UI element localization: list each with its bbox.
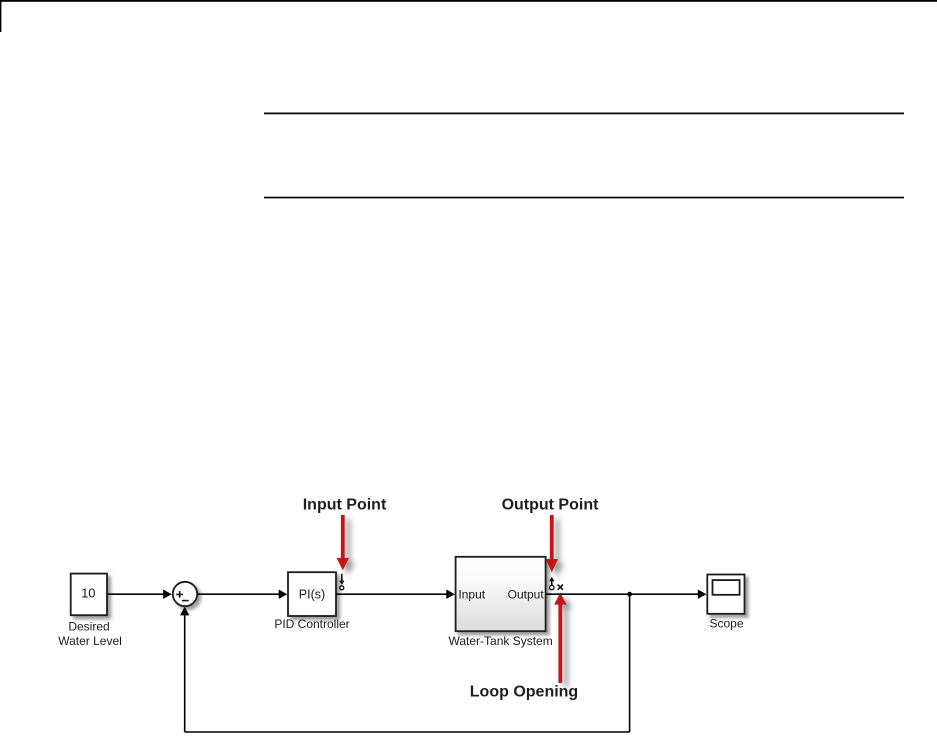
svg-text:PI(s): PI(s) <box>299 587 325 601</box>
svg-text:Loop Opening: Loop Opening <box>470 683 578 700</box>
block Water-Tank System <box>456 557 546 631</box>
block Scope <box>707 575 744 614</box>
red arrow Loop Opening <box>554 593 566 683</box>
sum junction <box>173 582 197 606</box>
red arrow Output Point <box>546 515 558 572</box>
feedback wire up to sum <box>180 607 189 732</box>
output point marker <box>549 577 554 590</box>
svg-text:Scope: Scope <box>709 617 743 631</box>
svg-text:Water-Tank System: Water-Tank System <box>448 634 552 648</box>
block PID Controller PI(s) <box>288 572 336 616</box>
block Constant "10" <box>71 574 107 616</box>
svg-text:Desired: Desired <box>68 620 109 634</box>
svg-text:PID Controller: PID Controller <box>274 617 349 631</box>
svg-text:Input Point: Input Point <box>303 497 387 514</box>
red arrow Input Point <box>337 515 349 570</box>
wire Water-Tank to Scope <box>546 590 707 599</box>
input point marker <box>339 574 344 590</box>
svg-text:Output Point: Output Point <box>502 497 600 514</box>
label Desired Water Level <box>58 620 122 649</box>
wire PID to Water-Tank <box>336 590 455 599</box>
loop opening cross mark <box>558 585 563 590</box>
wire Constant to Sum <box>107 590 172 599</box>
svg-text:10: 10 <box>81 585 95 600</box>
feedback wire bottom run <box>185 731 630 733</box>
feedback wire down from junction <box>629 594 631 732</box>
horizontal rule upper <box>264 113 904 115</box>
svg-text:Output: Output <box>508 587 545 601</box>
wire Sum to PID <box>197 590 287 599</box>
svg-text:Input: Input <box>458 587 485 601</box>
horizontal rule lower <box>264 197 904 199</box>
svg-text:Water Level: Water Level <box>58 634 122 648</box>
junction node <box>627 592 632 597</box>
